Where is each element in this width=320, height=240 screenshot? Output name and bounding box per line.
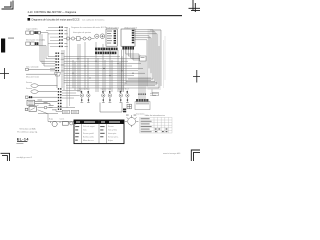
small block <box>123 109 126 113</box>
relay K1 <box>26 42 34 45</box>
svg-text:Con calefactor del sistema: Con calefactor del sistema <box>82 18 105 21</box>
svg-text:mmbtyl ge sewt 1: mmbtyl ge sewt 1 <box>17 156 33 159</box>
gauge G1 <box>95 34 105 39</box>
svg-text:Inyector No.1: Inyector No.1 <box>79 88 90 91</box>
svg-text:Sensor: Sensor <box>108 126 114 128</box>
footer stamp <box>17 138 30 142</box>
pin strip lower A gaps <box>98 48 116 51</box>
aux comp left <box>26 68 55 70</box>
gray band right <box>157 36 166 90</box>
timing table dark cells <box>155 128 168 132</box>
ECM U1 <box>106 29 117 46</box>
ground cluster <box>70 122 76 125</box>
svg-text:Tabla de intermitencias: Tabla de intermitencias <box>144 114 164 117</box>
svg-text:Sensor princ.: Sensor princ. <box>108 136 119 138</box>
dial tiny labels <box>126 114 136 117</box>
svg-text:Sensor pedal: Sensor pedal <box>83 133 94 135</box>
register cross right <box>193 70 200 83</box>
svg-text:Bujia: Bujia <box>49 118 53 120</box>
svg-text:Diagrama del circuito del moto: Diagrama del circuito del motor para ECC… <box>32 19 80 22</box>
svg-text:Interruptor: Interruptor <box>108 132 117 135</box>
battery B1 <box>62 122 68 126</box>
alternator A1 <box>27 100 58 106</box>
svg-text:Masa de carr.: Masa de carr. <box>83 140 94 142</box>
bus lines <box>64 56 157 85</box>
svg-text:Bomba comb.: Bomba comb. <box>83 136 95 138</box>
svg-text:Valv. solenoide: Valv. solenoide <box>26 67 39 69</box>
small boxes row <box>62 110 78 114</box>
nested corner turns <box>66 30 161 88</box>
svg-text:Inyector No.2: Inyector No.2 <box>101 88 112 91</box>
trim mark top-right <box>189 0 201 12</box>
pin strip under control unit <box>122 47 134 50</box>
stamp subrow <box>17 141 27 142</box>
pin strip lower A <box>95 48 118 51</box>
trim mark top-left <box>2 1 14 10</box>
fan-out wires to right bundle <box>122 30 158 99</box>
junction labels <box>49 105 57 110</box>
caption bullet <box>28 18 31 21</box>
svg-text:Rele de seguri.: Rele de seguri. <box>83 126 96 128</box>
svg-text:Valv.: Valv. <box>83 130 87 132</box>
sensor oval S3 <box>31 90 58 94</box>
connector strip J3 <box>58 88 62 110</box>
coil top pins <box>138 93 146 95</box>
svg-text:Diagrama de conexiones del mot: Diagrama de conexiones del motor ECCS <box>71 26 107 29</box>
ignition coil body <box>135 102 150 110</box>
svg-text:Caja fusibles: Caja fusibles <box>26 29 37 31</box>
injector 1 pins <box>81 91 89 101</box>
svg-text:weertst renwys b40: weertst renwys b40 <box>163 152 181 155</box>
bottom-left wires <box>38 106 75 121</box>
injector 2 pins <box>102 91 110 101</box>
verticals through bus <box>62 42 126 92</box>
bottom-left module <box>25 106 36 111</box>
injector bracket <box>100 103 122 113</box>
svg-text:Sensor: Sensor <box>26 81 32 84</box>
legend table <box>74 120 124 144</box>
section tab black <box>1 39 5 53</box>
switch pins <box>29 96 32 98</box>
distributor grid <box>127 104 131 109</box>
fuse pins dark <box>34 31 37 34</box>
sensor oval S2 <box>31 84 58 88</box>
shielded harness gray band <box>67 28 70 108</box>
motor M1 <box>52 121 57 126</box>
trim mark bottom-left <box>1 153 10 161</box>
injector 3 pins <box>120 91 128 101</box>
tab label <box>8 38 14 39</box>
switch row <box>25 96 57 98</box>
trim mark bottom-right <box>191 150 200 161</box>
coil side wires <box>150 89 159 95</box>
svg-text:Transistor: Transistor <box>136 113 145 116</box>
svg-text:Vehiculos con A/A: Vehiculos con A/A <box>19 127 36 130</box>
distributor dial <box>125 115 139 127</box>
injector group 1 <box>80 91 90 103</box>
corner note small <box>16 142 23 145</box>
wire fuse to bus <box>34 33 55 66</box>
injector group 2 <box>102 91 112 103</box>
strip J2 shell <box>55 72 61 76</box>
svg-text:Bujias: Bujias <box>108 140 113 142</box>
connector strip J1 <box>46 27 68 48</box>
svg-text:Masa del motor: Masa del motor <box>26 76 39 79</box>
fuse box F1 <box>26 31 41 34</box>
svg-text:Sensor: Sensor <box>26 87 32 90</box>
sensor S1 <box>66 37 91 41</box>
control unit U2 <box>121 29 135 46</box>
long bus low <box>26 72 57 88</box>
header rule <box>29 15 183 16</box>
svg-text:4-10 CONTROL DEL MOTOR — Diag: 4-10 CONTROL DEL MOTOR — Diagrama <box>28 11 77 14</box>
svg-text:Interruptor de presion: Interruptor de presion <box>73 31 91 34</box>
timing table <box>140 117 172 133</box>
connector strip J2 <box>55 53 65 77</box>
timing table text <box>141 118 152 132</box>
relay pins dark <box>35 42 38 45</box>
ignition coil block pins <box>136 99 148 102</box>
wires J2 left <box>50 68 55 71</box>
bottom wire run <box>48 122 76 124</box>
alternator wire labels <box>38 100 48 103</box>
svg-text:Cond.: Cond. <box>60 118 65 120</box>
pin strip lower B gaps <box>97 52 114 55</box>
svg-text:Interruptor encendido: Interruptor encendido <box>26 38 46 41</box>
wires J3 to injectors <box>62 91 80 98</box>
bus junction dots <box>72 58 133 78</box>
injector group 3 <box>119 91 129 103</box>
sensor chain wires <box>64 38 95 40</box>
pin strip gaps <box>125 47 132 50</box>
register cross left <box>0 68 9 79</box>
svg-text:Valv. y filtro: Valv. y filtro <box>108 129 117 132</box>
svg-text:Inyector No.3: Inyector No.3 <box>118 88 129 91</box>
relay on bundle <box>140 56 147 61</box>
pin strip lower B <box>95 52 116 55</box>
svg-text:EL continua a pag. sig.: EL continua a pag. sig. <box>17 131 38 134</box>
coil pin gaps <box>139 99 147 102</box>
scan bleed column <box>148 29 162 90</box>
